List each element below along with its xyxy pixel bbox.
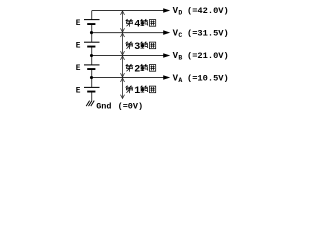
wire: cell 1 minus to node C: [91, 25, 93, 33]
dimension arrow range 1: [121, 78, 125, 98]
ground: [86, 101, 94, 107]
svg-text:Gnd: Gnd: [96, 102, 111, 112]
wire: node D top horizontal to arrow: [92, 10, 164, 12]
svg-text:4: 4: [134, 19, 140, 30]
svg-text:E: E: [76, 87, 81, 95]
svg-text:(=31.5V): (=31.5V): [187, 29, 229, 39]
junction node B: [90, 54, 93, 57]
wire: node C horizontal to arrow: [92, 32, 164, 34]
svg-text:(=21.0V): (=21.0V): [187, 51, 229, 61]
arrow to node D label: [163, 8, 170, 13]
junction node A: [90, 76, 93, 79]
wire: cell 4 minus to ground: [91, 92, 93, 101]
wire: node C down to cell 2 plus: [91, 33, 93, 42]
wire: node B down to cell 3 plus: [91, 56, 93, 65]
dimension arrow range 2: [121, 56, 125, 77]
svg-text:2: 2: [134, 64, 140, 75]
label 第1範囲: [126, 86, 156, 97]
svg-text:C: C: [178, 32, 182, 39]
dimension arrow range 4: [121, 11, 125, 32]
dimension arrow range 3: [121, 33, 125, 55]
svg-text:3: 3: [134, 42, 140, 53]
wire: node A down to cell 4 plus: [91, 78, 93, 88]
svg-text:1: 1: [134, 86, 140, 97]
junction node C: [90, 31, 93, 34]
battery E (cell 2): [84, 42, 100, 47]
svg-text:E: E: [76, 65, 81, 73]
svg-text:D: D: [178, 9, 182, 16]
svg-text:(=42.0V): (=42.0V): [187, 6, 229, 16]
wire: node A horizontal to arrow: [92, 77, 164, 79]
label 第3範囲: [126, 42, 156, 53]
svg-text:E: E: [76, 42, 81, 50]
svg-text:B: B: [178, 54, 182, 61]
wire: cell 2 minus to node B: [91, 47, 93, 56]
wire: cell 3 minus to node A: [91, 70, 93, 78]
battery E (cell 1): [84, 20, 100, 25]
svg-text:(=0V): (=0V): [118, 102, 144, 112]
label 第2範囲: [126, 64, 156, 75]
label 第4範囲: [126, 19, 156, 30]
arrow to node C label: [163, 30, 170, 35]
wire: stub from node D down to cell 1: [91, 11, 93, 20]
svg-text:A: A: [178, 77, 182, 84]
wire: node B horizontal to arrow: [92, 55, 164, 57]
svg-text:E: E: [76, 20, 81, 28]
svg-text:(=10.5V): (=10.5V): [187, 74, 229, 84]
battery E (cell 4): [84, 87, 100, 92]
arrow to node A label: [163, 75, 170, 80]
battery E (cell 3): [84, 65, 100, 70]
arrow to node B label: [163, 53, 170, 58]
